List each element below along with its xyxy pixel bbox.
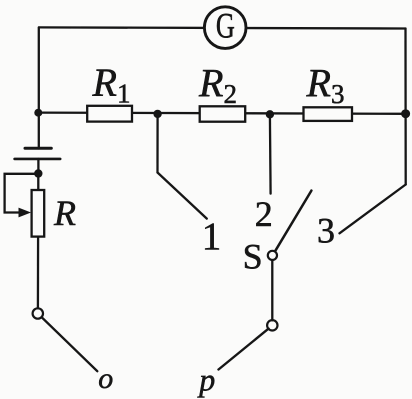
- wire rheostat to terminal o: [37, 237, 39, 309]
- rheostat R: [32, 190, 76, 237]
- resistor R1: [87, 60, 132, 122]
- node tap 3 junction: [401, 109, 410, 118]
- svg-text:p: p: [197, 362, 215, 398]
- wire tap 2 vertical: [269, 114, 272, 193]
- svg-text:S: S: [243, 237, 263, 277]
- wire battery to junction: [37, 159, 39, 174]
- svg-text:G: G: [216, 6, 235, 46]
- battery cell: [15, 148, 61, 159]
- wire switch to terminal p: [271, 260, 273, 320]
- wire tap 1 lead: [158, 173, 207, 219]
- svg-text:2: 2: [255, 194, 273, 234]
- wire resistor row: [39, 113, 406, 114]
- wire top horizontal: [39, 27, 406, 28]
- resistor R3: [304, 60, 353, 121]
- terminal o post: [33, 308, 43, 318]
- resistor R2: [198, 61, 245, 122]
- wire terminal o lead: [42, 317, 98, 371]
- node battery-rheostat junction: [34, 169, 42, 177]
- node tap 1 junction: [153, 110, 161, 118]
- svg-text:3: 3: [317, 211, 335, 251]
- node tap 2 junction: [266, 110, 274, 118]
- svg-text:1: 1: [202, 215, 222, 258]
- rheostat wiper arrow: [19, 208, 32, 218]
- wire tap 3 lead: [340, 185, 406, 234]
- wire terminal p lead: [219, 329, 269, 370]
- svg-text:o: o: [98, 362, 113, 395]
- svg-text:R: R: [53, 193, 76, 233]
- terminal p post: [267, 320, 277, 330]
- node left row junction: [34, 109, 42, 117]
- wire tap 1 vertical: [156, 114, 158, 173]
- wire junction to rheostat: [37, 174, 39, 191]
- switch S: [243, 191, 312, 277]
- wire right vertical: [404, 29, 407, 185]
- galvanometer G: [204, 6, 246, 49]
- wire rheostat wiper loop: [5, 174, 37, 213]
- wire left vertical: [38, 27, 40, 148]
